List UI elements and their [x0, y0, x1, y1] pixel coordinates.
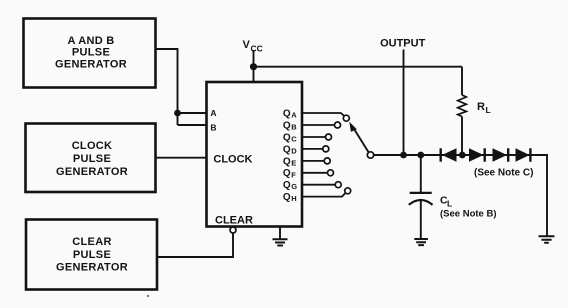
- svg-text:B: B: [210, 123, 216, 133]
- svg-text:A: A: [291, 111, 297, 120]
- svg-text:F: F: [291, 170, 296, 179]
- svg-text:E: E: [291, 158, 296, 167]
- svg-text:CLEAR: CLEAR: [72, 236, 111, 248]
- svg-text:R: R: [477, 101, 485, 113]
- svg-text:OUTPUT: OUTPUT: [380, 38, 426, 50]
- svg-text:H: H: [291, 194, 296, 203]
- svg-text:A AND B: A AND B: [67, 35, 114, 47]
- svg-text:(See Note C): (See Note C): [474, 168, 533, 179]
- svg-text:L: L: [447, 199, 452, 209]
- svg-text:Q: Q: [283, 180, 291, 191]
- svg-text:PULSE: PULSE: [72, 46, 110, 58]
- svg-text:CLOCK: CLOCK: [72, 140, 113, 152]
- svg-text:Q: Q: [283, 168, 291, 179]
- svg-text:A: A: [210, 108, 216, 118]
- svg-text:GENERATOR: GENERATOR: [55, 58, 127, 70]
- svg-text:D: D: [291, 146, 297, 155]
- svg-text:CLEAR: CLEAR: [215, 215, 253, 227]
- svg-text:PULSE: PULSE: [73, 153, 111, 165]
- svg-text:GENERATOR: GENERATOR: [56, 166, 128, 178]
- svg-text:Q: Q: [283, 144, 291, 155]
- svg-text:V: V: [243, 39, 251, 51]
- svg-text:CC: CC: [251, 44, 263, 54]
- svg-text:C: C: [440, 195, 448, 207]
- svg-text:C: C: [291, 135, 297, 144]
- svg-text:(See Note B): (See Note B): [440, 209, 496, 220]
- svg-text:PULSE: PULSE: [73, 249, 111, 261]
- svg-text:B: B: [291, 123, 297, 132]
- svg-text:Q: Q: [283, 121, 291, 132]
- svg-text:CLOCK: CLOCK: [213, 153, 252, 165]
- svg-text:Q: Q: [283, 156, 291, 167]
- svg-text:Q: Q: [283, 132, 291, 143]
- svg-text:L: L: [486, 105, 491, 115]
- svg-text:Q: Q: [283, 192, 291, 203]
- svg-text:G: G: [291, 182, 297, 191]
- svg-text:GENERATOR: GENERATOR: [56, 262, 128, 274]
- svg-text:Q: Q: [283, 109, 291, 120]
